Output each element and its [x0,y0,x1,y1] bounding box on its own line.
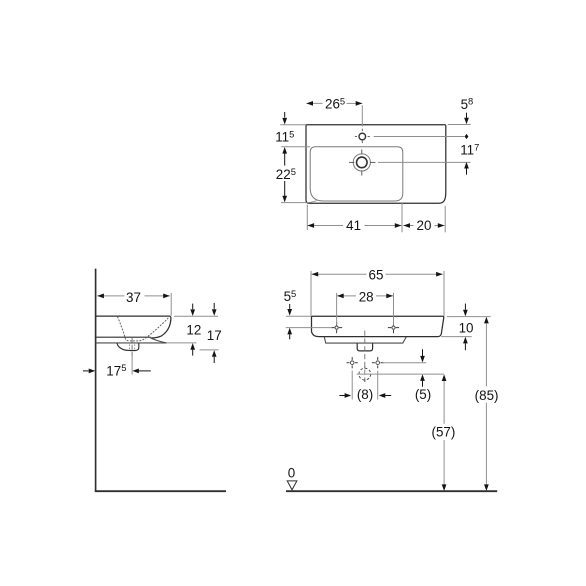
side view: ledge bottom edge [96,342,167,344]
dim 11.5: rear edge extension line left [280,124,306,126]
dim 41: dimension line and arrows [308,225,344,227]
dim 11.7: lower arrow with stem [464,162,469,169]
side view: front under-slope to ledge [151,338,167,343]
front view: under-step outline [324,337,406,343]
side view: drain centerline dashed [131,338,133,356]
svg-text:12: 12 [186,322,201,337]
dim (85): vertical dimension line with arrows [484,317,489,324]
side view: floor line left [95,490,226,492]
side view: ceramic bottom edge [96,336,151,338]
dim 12: upper arrow with stem [192,304,194,310]
dim 5.5: lower arrow with stem [287,328,292,335]
front view: right wall-fixing hole cross [376,361,380,365]
dim 22.5: basin bottom extension line left [281,202,306,204]
side view: drain pipe dashed walls in cup [129,344,131,349]
dim 17.5: left arrow with stem (outside wall) [83,370,89,372]
dim 26.5: left arrow [306,101,313,106]
side view: trap cup outline [117,343,139,350]
top view: drain cross ticks [349,161,354,163]
dim 22.5: top arrow with stem [282,147,287,154]
dim 17: lower arrow with stem [212,350,217,357]
dim 37: dimension line and arrows [97,295,124,297]
top view: tap hole side ticks [355,136,357,138]
front view: drain outlet ticks [364,366,366,368]
svg-text:41: 41 [346,218,361,233]
side view: hidden inner basin dotted contour [118,317,169,341]
svg-text:28: 28 [359,289,374,304]
dim 17: upper arrow with stem [213,303,215,309]
svg-text:(5): (5) [415,387,431,402]
top view: drain inner circle [357,157,368,168]
top view: basin front lip curve [307,201,317,203]
svg-text:65: 65 [369,268,384,283]
dim 5.8: shared diamond marker on tap hole line [465,134,469,139]
top view: tap hole top tick [361,129,363,132]
svg-text:17: 17 [207,328,222,343]
dim 10: upper arrow with stem [464,304,466,310]
dim 20: dimension line and arrows [403,225,413,227]
front view: drain flange outline [357,343,372,351]
dim 65: right extension line [443,271,445,316]
svg-text:(85): (85) [475,388,499,403]
side view: basin rim top edge [96,315,170,317]
svg-text:0: 0 [288,466,295,481]
dim (5): upper arrow with stem [422,349,424,356]
dim 22.5: bottom stem and arrow [284,181,286,196]
dim 5.8: rear edge extension line right [448,124,471,126]
top view: drain outer circle [353,154,370,171]
side view: wall line [95,269,97,492]
top view: inner basin outline [310,147,403,201]
dim 65: dimension line and arrows [312,273,367,275]
dim 10: lower arrow with stem [463,337,468,344]
dim 17.5: right arrow with stem [132,369,139,374]
front view: drain outlet dashed circle [359,368,371,380]
svg-text:117: 117 [460,141,479,157]
dim 12/17: rim extension line right [174,315,218,317]
dim 37: front edge extension line [170,293,172,316]
svg-text:55: 55 [284,288,297,304]
dim 5.5: upper arrow with stem [289,304,291,309]
front view: vertical dashed centerline [364,331,366,382]
dim 41: left extension line [306,205,308,230]
front view: leader from fixing cross to dim (5) [383,362,427,364]
dim 28: dimension line and arrows [337,295,356,297]
svg-text:(57): (57) [431,425,455,440]
dim 28: right extension line [393,293,395,325]
top view: tap hole leader line to diamond [374,136,465,138]
dim 12: lower arrow with stem [190,343,195,350]
dim 26.5: right arrow [356,101,363,106]
dim (5): lower arrow with stem [420,374,425,381]
side view: basin front face curve [151,316,171,338]
svg-text:225: 225 [276,166,296,182]
front view: left wall-fixing hole cross [350,361,354,365]
dim 26.5: dimension line [306,102,322,104]
svg-text:175: 175 [106,362,126,378]
dim 20: right extension line [444,206,446,233]
svg-text:265: 265 [325,95,345,111]
dim (57): vertical dimension line with arrows [442,374,447,381]
front view: leader from drain outlet to dim (57) [357,373,444,375]
dim 28: left extension line [336,293,338,325]
dim 17.5: drain centerline extension below trap [131,356,133,374]
top view: washbasin outer rim outline [306,125,446,204]
svg-text:58: 58 [461,96,474,112]
front view: basin body outline [312,316,444,336]
dim 5.8: upper arrow with stem [466,113,468,118]
top view: drain leader line to right (ref for dim 11.7) [378,161,471,163]
svg-text:115: 115 [275,128,294,144]
top view: tap hole centerline upper (ext of dim 26.5) [361,105,363,126]
front view: left tap hole cross [335,326,338,329]
dim 12: lower extension line [166,342,196,344]
dim (8): left arrow with stem [339,395,344,397]
svg-text:20: 20 [417,218,432,233]
dim 17: lower extension line [200,349,219,351]
dim 10: basin bottom extension right [441,336,472,338]
dim 11.5: basin top extension line left [281,146,310,148]
svg-text:10: 10 [459,320,474,335]
svg-text:37: 37 [126,290,141,305]
dim (8): left extension line [351,371,353,400]
svg-text:(8): (8) [357,387,373,402]
floor level: datum triangle [287,481,297,490]
top view: drain top tick [361,149,363,154]
dim (8): right arrow with stem [379,393,386,398]
dim 5.5: basin top edge extension left [286,315,311,317]
dim 41/20: middle extension line [401,202,403,232]
dim 11.5: upper arrow with stem [284,112,286,118]
dim 65: left extension line [310,271,312,316]
dim (8): right extension line [377,371,379,400]
top view: tap hole bottom tick [361,141,363,144]
dim 10: basin top edge extension right (shared with dim 85) [447,316,491,318]
dim 5.5: tap hole line extension left [286,327,332,329]
front view: right tap hole cross [392,326,395,329]
top view: tap hole circle [359,133,366,140]
front view: floor line [286,490,497,492]
